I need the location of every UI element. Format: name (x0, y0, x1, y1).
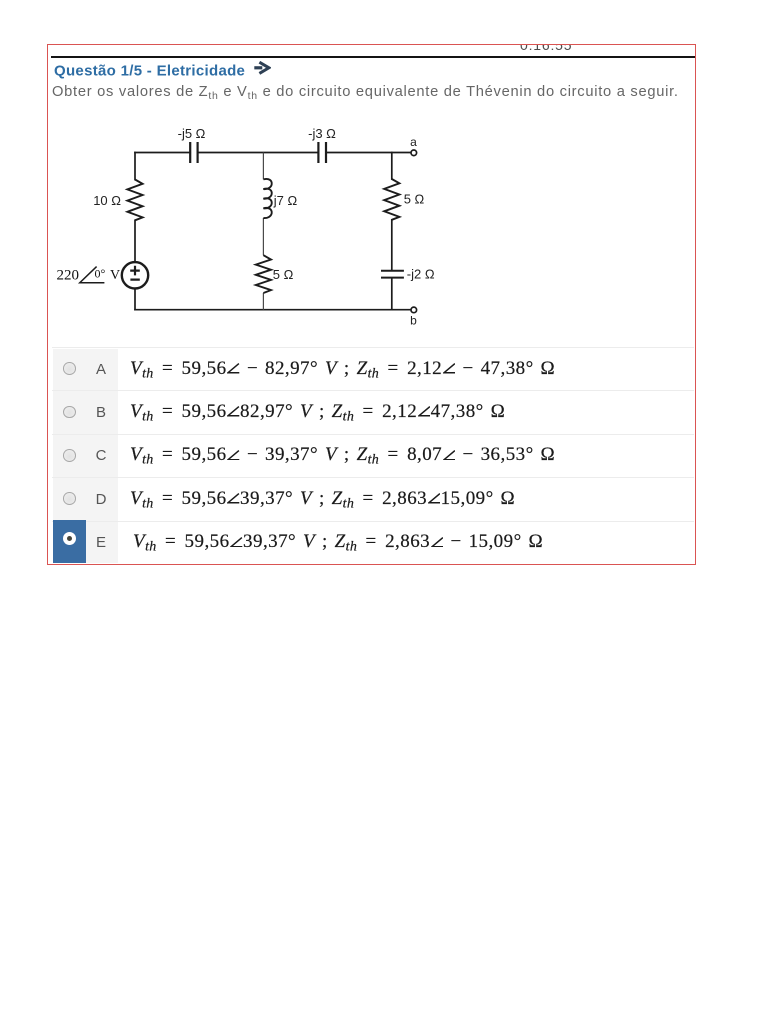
question statement (52, 84, 679, 102)
capacitor C3 -j2ohm (381, 271, 404, 278)
wire left branch leads (134, 153, 136, 310)
inductor L1 j7ohm (263, 179, 271, 218)
capacitor C2 -j3ohm (318, 142, 326, 163)
svg-text:-j2 Ω: -j2 Ω (407, 266, 435, 281)
svg-text:10 Ω: 10 Ω (93, 193, 121, 208)
wire right branch leads (391, 153, 393, 310)
svg-text:-j5 Ω: -j5 Ω (178, 126, 206, 141)
resistor R2 5ohm (middle branch) (256, 255, 271, 293)
angle symbol of source phasor label (80, 267, 105, 283)
answers (53, 349, 118, 563)
svg-text:V: V (110, 268, 120, 283)
voltage source V1 plus-minus marks (130, 266, 140, 280)
wire top (node 1 - node 2 - node a) (135, 152, 411, 154)
svg-text:5 Ω: 5 Ω (273, 267, 294, 282)
question header (54, 61, 271, 80)
svg-text:0°: 0° (95, 267, 106, 281)
capacitor C1 -j5ohm (190, 142, 197, 163)
node b terminal (411, 307, 417, 313)
timer (clipped at top) (520, 37, 572, 53)
resistor R3 5ohm (right branch) (384, 179, 399, 220)
svg-text:220: 220 (57, 268, 80, 284)
resistor R1 10ohm (127, 180, 142, 221)
node a terminal (411, 150, 417, 156)
wire middle branch leads (262, 153, 264, 310)
circuit schematic (50, 118, 450, 340)
wire bottom (node 0 - node b) (135, 309, 411, 311)
svg-text:5 Ω: 5 Ω (404, 192, 425, 207)
svg-text:-j3 Ω: -j3 Ω (308, 126, 336, 141)
top black rule (51, 56, 695, 58)
svg-text:a: a (410, 135, 417, 149)
svg-text:j7 Ω: j7 Ω (273, 193, 298, 208)
svg-text:b: b (410, 314, 417, 328)
voltage source V1 220V circle (122, 262, 148, 288)
